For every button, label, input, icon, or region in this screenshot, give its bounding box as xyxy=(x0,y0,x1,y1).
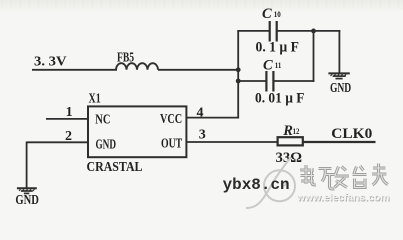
svg-text:C: C xyxy=(262,6,272,22)
wire: top branch to C10 left plate xyxy=(237,30,269,32)
svg-text:VCC: VCC xyxy=(160,111,182,126)
svg-text:2: 2 xyxy=(65,129,72,144)
svg-text:12: 12 xyxy=(293,126,300,136)
svg-text:NC: NC xyxy=(95,112,110,127)
wire: C10 right plate to ground branch xyxy=(277,30,341,32)
ground symbol left (earth) xyxy=(15,188,39,207)
svg-text:www.elecfans.com: www.elecfans.com xyxy=(296,192,389,204)
wire: FB5 to decoupling node xyxy=(158,69,239,71)
crystal oscillator X1 body xyxy=(88,92,186,158)
junction: 3.3V rail joins cap bus xyxy=(236,67,241,72)
wire: drop from top rail to right ground xyxy=(338,30,340,73)
svg-text:3. 3V: 3. 3V xyxy=(34,53,67,68)
svg-text:OUT: OUT xyxy=(161,136,182,151)
watermark elecfans logo glyphs xyxy=(300,164,388,190)
svg-text:0. 1 µ F: 0. 1 µ F xyxy=(256,40,300,56)
watermark elecfans url xyxy=(296,192,390,205)
svg-text:3: 3 xyxy=(199,128,206,143)
ferrite bead FB5 xyxy=(116,49,158,70)
wire: C11 right plate to right bus xyxy=(273,80,314,82)
capacitor C11 xyxy=(263,58,281,92)
svg-text:X1: X1 xyxy=(89,92,101,107)
resistor R12 xyxy=(278,123,303,146)
svg-text:1: 1 xyxy=(66,105,73,120)
wire: right vertical bus C10 to C11 xyxy=(313,31,315,82)
svg-text:4: 4 xyxy=(197,105,204,120)
svg-text:0. 01 µ F: 0. 01 µ F xyxy=(255,91,305,107)
svg-text:FB5: FB5 xyxy=(117,49,134,64)
junction: right cap bus joins top wire xyxy=(311,29,316,34)
wire: pin 2 down to left ground xyxy=(26,142,28,188)
svg-text:33Ω: 33Ω xyxy=(276,150,303,166)
pin 3 wire (OUT) to series resistor xyxy=(186,141,277,143)
svg-text:GND: GND xyxy=(96,137,117,152)
svg-text:ybx8.cn: ybx8.cn xyxy=(223,176,290,194)
svg-text:CLK0: CLK0 xyxy=(331,126,372,142)
svg-text:10: 10 xyxy=(274,9,281,19)
pin 1 wire (NC) xyxy=(46,118,88,120)
svg-text:CRASTAL: CRASTAL xyxy=(87,159,143,174)
wire: 3.3V rail from label to FB5 xyxy=(32,69,117,71)
ground symbol right (earth) xyxy=(328,73,351,95)
svg-text:GND: GND xyxy=(15,192,39,207)
watermark ybx8.cn circle and swoosh xyxy=(246,157,295,208)
svg-text:GND: GND xyxy=(330,80,351,95)
capacitor C10 xyxy=(262,6,281,41)
wire: left vertical bus of decoupling caps xyxy=(237,31,239,118)
wire: resistor to CLK0 output xyxy=(303,141,376,143)
svg-text:C: C xyxy=(263,58,273,74)
pin 2 wire (GND) xyxy=(27,141,88,143)
junction: C11 branch joins cap bus xyxy=(236,79,241,84)
svg-text:11: 11 xyxy=(275,60,282,70)
wire: C11 branch left segment xyxy=(238,80,267,82)
pin 4 wire (VCC) xyxy=(186,117,239,119)
